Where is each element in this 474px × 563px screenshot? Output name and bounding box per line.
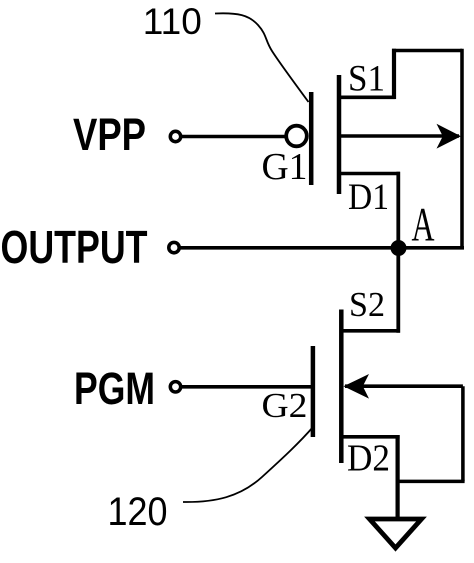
wire D1 vertical to node A xyxy=(396,172,400,248)
wire node A down to S2 xyxy=(396,248,400,333)
transistor U120 gate bar xyxy=(311,346,316,437)
transistor U110 gate bar xyxy=(309,92,314,185)
wire right rail lower xyxy=(461,386,465,481)
svg-text:G2: G2 xyxy=(262,386,308,425)
gate bubble G1 (PMOS circle) xyxy=(286,126,307,147)
svg-text:G1: G1 xyxy=(262,146,308,188)
wire S2 stub xyxy=(341,329,400,333)
svg-text:S2: S2 xyxy=(349,285,385,324)
arrowhead pointing left into channel xyxy=(344,374,370,399)
wire right rail upper xyxy=(460,49,464,248)
terminal PGM (open circle) xyxy=(170,382,180,392)
leader line to transistor 120 gate xyxy=(183,427,313,502)
wire D2 stub down to ground xyxy=(341,435,399,439)
svg-text:VPP: VPP xyxy=(73,109,146,160)
arrowhead pointing right into rail xyxy=(437,124,462,149)
svg-text:A: A xyxy=(412,200,435,252)
wire D2 vertical to ground xyxy=(396,435,400,519)
wire body lead 2 xyxy=(345,384,463,388)
leader line to transistor 110 gate xyxy=(215,13,309,102)
terminal OUTPUT (open circle) xyxy=(169,242,179,252)
terminal VPP (open circle) xyxy=(170,131,180,141)
wire PGM to gate bar xyxy=(181,385,313,389)
node A junction dot xyxy=(391,240,407,256)
wire VPP to gate circle xyxy=(181,135,286,139)
transistor U120 channel bar xyxy=(339,310,344,464)
svg-text:PGM: PGM xyxy=(74,363,155,414)
transistor U110 channel bar xyxy=(337,75,342,194)
svg-text:120: 120 xyxy=(108,490,168,534)
svg-text:D1: D1 xyxy=(348,177,389,218)
wire bottom horizontal to drain drop xyxy=(396,480,465,484)
wire S1 stub xyxy=(339,96,396,100)
ground symbol xyxy=(370,519,422,548)
wire D1 stub xyxy=(339,172,400,176)
wire body lead 1 xyxy=(339,134,459,138)
svg-text:OUTPUT: OUTPUT xyxy=(1,221,148,273)
svg-text:D2: D2 xyxy=(347,437,390,479)
wire OUTPUT to right rail xyxy=(178,246,465,250)
svg-text:110: 110 xyxy=(143,1,202,42)
wire top horizontal xyxy=(392,49,462,53)
wire S1 vertical xyxy=(392,49,396,99)
svg-text:S1: S1 xyxy=(348,58,385,99)
